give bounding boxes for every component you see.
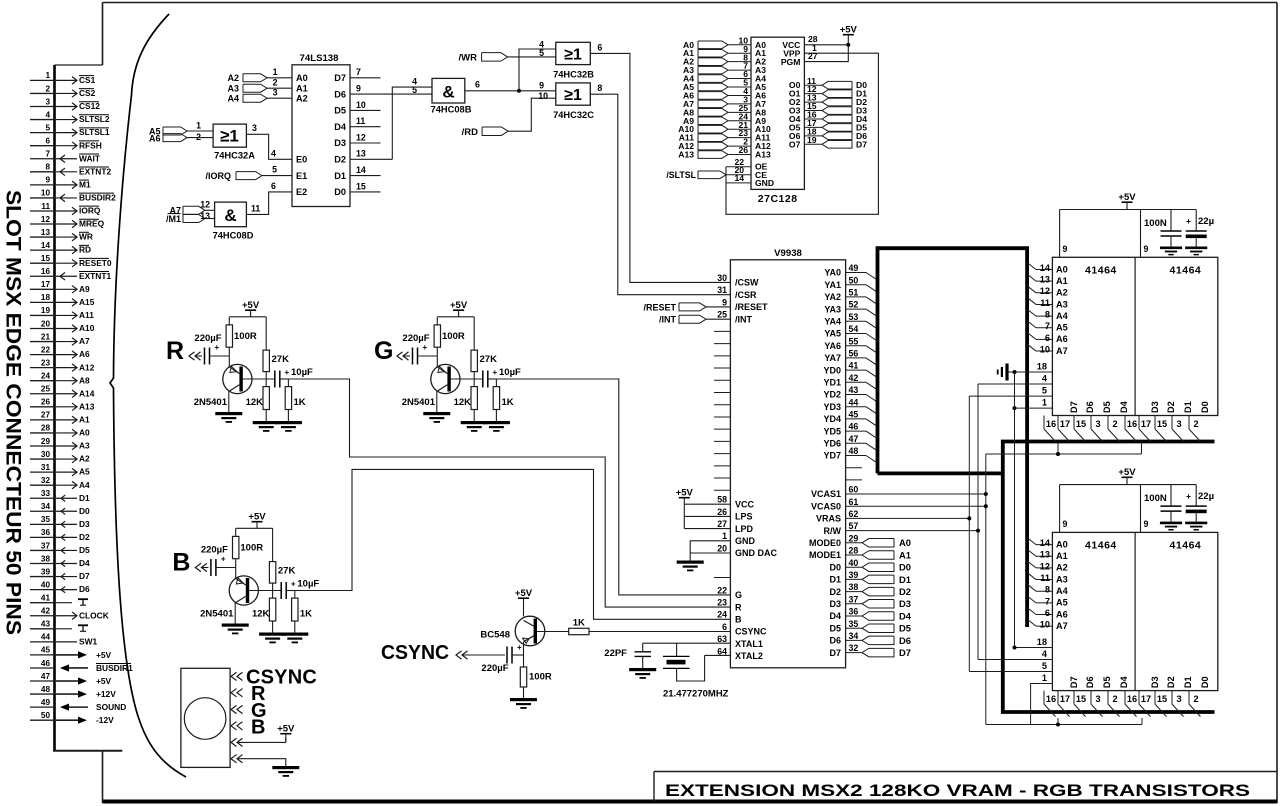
V9938 YD1 pin 42 to VRAM bus bbox=[823, 373, 877, 390]
svg-text:2: 2 bbox=[273, 77, 278, 87]
input A5 to 74HC32A bbox=[149, 121, 213, 137]
svg-text:YA1: YA1 bbox=[824, 280, 841, 290]
svg-text:16: 16 bbox=[1046, 694, 1056, 704]
svg-text:G: G bbox=[374, 337, 393, 365]
svg-text:+: + bbox=[517, 643, 522, 652]
svg-text:55: 55 bbox=[849, 336, 859, 346]
svg-text:B: B bbox=[172, 549, 190, 577]
svg-text:14: 14 bbox=[41, 241, 51, 250]
svg-text:D3: D3 bbox=[1150, 401, 1160, 413]
connector pin 11 IORQ bbox=[30, 202, 101, 216]
V9938 GND pins 1 and 20 to ground bbox=[690, 531, 777, 560]
svg-text:9: 9 bbox=[45, 176, 50, 185]
svg-text:+12V: +12V bbox=[96, 689, 116, 699]
input A4 to 74LS138 bbox=[227, 87, 292, 103]
connector pin 24 A8 bbox=[30, 372, 90, 386]
DRAM lower address pin 11 A3 bbox=[1027, 573, 1068, 585]
ground below 100N lower bbox=[1160, 522, 1182, 525]
svg-text:D2: D2 bbox=[829, 587, 841, 597]
svg-text:26: 26 bbox=[717, 507, 727, 517]
svg-text:+5V: +5V bbox=[1118, 192, 1136, 203]
input /SLTSL to EPROM CE pin 20 bbox=[666, 165, 767, 180]
svg-text:A1: A1 bbox=[296, 83, 308, 93]
V9938 D5 pin 35 from data bus bbox=[829, 619, 911, 634]
wire B signal to V9938 pin 24 bbox=[295, 469, 731, 619]
DRAM upper pin 1 wire bbox=[1013, 398, 1053, 411]
svg-text:CS1: CS1 bbox=[79, 75, 96, 85]
svg-text:+: + bbox=[221, 555, 226, 564]
V9938 MODE1 pin 28 from A1 bbox=[809, 546, 911, 561]
DRAM lower chip1 bottom pin 2 bbox=[1108, 691, 1120, 717]
svg-text:&: & bbox=[442, 83, 454, 102]
connector pin 13 WR bbox=[30, 228, 93, 242]
DIN pin CSYNC bbox=[231, 667, 317, 689]
and-gate U3B 74HC08B bbox=[412, 76, 465, 103]
svg-text:CLOCK: CLOCK bbox=[79, 610, 109, 620]
svg-text:D5: D5 bbox=[829, 623, 841, 633]
svg-text:D4: D4 bbox=[1119, 675, 1129, 688]
svg-text:A6: A6 bbox=[79, 349, 90, 359]
slot edge connector spine bbox=[53, 65, 122, 751]
DRAM lower address pin 14 A0 bbox=[1027, 538, 1068, 550]
svg-text:23: 23 bbox=[717, 598, 727, 608]
DRAM upper address pin 7 A5 bbox=[1027, 321, 1068, 333]
svg-text:42: 42 bbox=[41, 607, 51, 616]
svg-text:/RESET: /RESET bbox=[735, 302, 768, 312]
svg-text:D1: D1 bbox=[829, 575, 841, 585]
svg-text:A8: A8 bbox=[79, 375, 90, 385]
svg-text:D2: D2 bbox=[899, 586, 911, 597]
DRAM lower pin 18 wire bbox=[1013, 637, 1053, 650]
svg-text:2N5401: 2N5401 bbox=[194, 397, 228, 408]
svg-text:37: 37 bbox=[849, 594, 859, 604]
capacitor 22uF upper bbox=[1186, 210, 1214, 247]
B output arrow bbox=[195, 563, 201, 571]
resistor 100R CSYNC emitter bbox=[520, 667, 552, 698]
svg-text:+5V: +5V bbox=[840, 25, 858, 36]
ground below transistor R bbox=[215, 412, 242, 415]
svg-text:16: 16 bbox=[1127, 419, 1137, 429]
svg-text:A2: A2 bbox=[296, 93, 308, 103]
power +5V to V9938 VCC LPS LPD bbox=[676, 488, 755, 534]
svg-text:2: 2 bbox=[1193, 419, 1198, 429]
svg-text:3: 3 bbox=[1176, 694, 1181, 704]
svg-text:+: + bbox=[215, 343, 220, 352]
DRAM upper address pin 12 A2 bbox=[1027, 286, 1068, 298]
svg-text:A4: A4 bbox=[227, 94, 239, 104]
svg-text:D6: D6 bbox=[829, 636, 841, 646]
EPROM address input A12 pin 2 bbox=[678, 137, 771, 151]
svg-text:LPD: LPD bbox=[735, 524, 754, 534]
svg-text:A11: A11 bbox=[79, 310, 94, 320]
svg-text:+: + bbox=[1186, 491, 1191, 501]
svg-text:7: 7 bbox=[45, 150, 50, 159]
svg-text:YA3: YA3 bbox=[824, 304, 841, 314]
svg-text:100R: 100R bbox=[529, 672, 552, 683]
VRAM address bus thick rectangle bbox=[878, 248, 1028, 627]
svg-text:10: 10 bbox=[1040, 620, 1050, 630]
resistor 27K G bbox=[471, 317, 497, 379]
decoder U4 74LS138 bbox=[292, 65, 350, 207]
V9938 YA4 pin 53 to VRAM bus bbox=[824, 312, 877, 329]
V9938 YA1 pin 50 to VRAM bus bbox=[824, 275, 877, 292]
svg-text:R: R bbox=[735, 602, 742, 612]
svg-text:YD7: YD7 bbox=[823, 451, 841, 461]
svg-text:13: 13 bbox=[356, 149, 366, 159]
EPROM GND pin 14 bbox=[726, 173, 774, 188]
wire 74HC08B output 6 to 74HC32C pin 9 with junction bbox=[465, 80, 556, 93]
svg-text:B: B bbox=[251, 716, 265, 738]
resistor 100R R bbox=[226, 317, 257, 367]
connector pin 41 GND bbox=[30, 593, 88, 605]
svg-text:100R: 100R bbox=[442, 331, 465, 342]
DRAM lower address pin 7 A5 bbox=[1027, 596, 1068, 608]
DRAM upper address pin 6 A6 bbox=[1027, 332, 1068, 344]
DRAM lower chip1 bottom pin 15 bbox=[1074, 691, 1086, 717]
svg-text:A3: A3 bbox=[1056, 574, 1068, 584]
svg-text:YD4: YD4 bbox=[823, 414, 841, 424]
capacitor 100N lower bbox=[1144, 485, 1182, 522]
svg-text:XTAL1: XTAL1 bbox=[735, 639, 763, 649]
svg-text:EXTNT1: EXTNT1 bbox=[79, 271, 111, 281]
svg-text:PGM: PGM bbox=[781, 57, 801, 67]
svg-text:A1: A1 bbox=[79, 414, 90, 424]
svg-text:YA6: YA6 bbox=[824, 341, 841, 351]
svg-text:A7: A7 bbox=[79, 336, 90, 346]
resistor 27K B bbox=[269, 528, 295, 590]
V9938 YA2 pin 51 to VRAM bus bbox=[824, 288, 877, 305]
svg-text:D4: D4 bbox=[829, 611, 841, 621]
svg-text:43: 43 bbox=[41, 620, 51, 629]
svg-text:/IORQ: /IORQ bbox=[205, 171, 231, 181]
svg-text:A5: A5 bbox=[1056, 598, 1068, 608]
svg-text:24: 24 bbox=[717, 610, 727, 620]
input /INT to V9938 pin 25 bbox=[659, 310, 753, 325]
svg-text:1: 1 bbox=[1042, 398, 1047, 408]
svg-text:7: 7 bbox=[356, 67, 361, 77]
svg-text:+5V: +5V bbox=[676, 488, 694, 499]
svg-text:≥1: ≥1 bbox=[564, 47, 582, 64]
ground below 100R CSYNC bbox=[510, 698, 537, 701]
svg-text:VRAS: VRAS bbox=[816, 514, 841, 524]
svg-text:YD1: YD1 bbox=[823, 378, 841, 388]
capacitor 220uF CSYNC bbox=[481, 643, 523, 674]
svg-text:53: 53 bbox=[849, 312, 859, 322]
svg-text:14: 14 bbox=[734, 173, 744, 183]
connector pin 48 +12V bbox=[30, 685, 116, 699]
wire XTAL2 pin 64 bbox=[705, 654, 731, 656]
svg-text:16: 16 bbox=[1127, 694, 1137, 704]
svg-text:A0: A0 bbox=[296, 73, 308, 83]
EPROM data output O2 pin 13 to D2 bbox=[789, 93, 867, 107]
svg-text:10µF: 10µF bbox=[291, 367, 313, 378]
resistor 12K G bbox=[454, 379, 478, 421]
svg-text:74HC08D: 74HC08D bbox=[213, 231, 254, 241]
resistor 1K CSYNC base bbox=[537, 618, 730, 635]
svg-text:51: 51 bbox=[849, 288, 859, 298]
V9938 YD2 pin 43 to VRAM bus bbox=[823, 385, 877, 402]
R output arrow bbox=[189, 352, 195, 360]
EPROM address input A10 pin 21 bbox=[678, 120, 771, 134]
DRAM lower address pin 10 A7 bbox=[1027, 619, 1068, 631]
svg-text:14: 14 bbox=[356, 165, 366, 175]
svg-text:A3: A3 bbox=[227, 84, 239, 94]
DRAM upper chip2 bottom pin 17 bbox=[1139, 416, 1151, 442]
svg-text:+5V: +5V bbox=[450, 300, 468, 311]
svg-text:1: 1 bbox=[45, 71, 50, 80]
svg-text:MODE0: MODE0 bbox=[809, 538, 841, 548]
V9938 /CSW pin 30 bbox=[717, 273, 759, 288]
svg-text:57: 57 bbox=[849, 521, 859, 531]
svg-text:SLTSL2: SLTSL2 bbox=[79, 114, 110, 124]
V9938 D6 pin 34 from data bus bbox=[829, 631, 911, 646]
DRAM upper pin 18 to ground and GND net bbox=[1007, 362, 1052, 375]
svg-text:3: 3 bbox=[252, 123, 257, 133]
svg-text:A5: A5 bbox=[1056, 323, 1068, 333]
connector pin 25 A14 bbox=[30, 385, 95, 399]
V9938 D7 pin 32 from data bus bbox=[829, 643, 911, 658]
svg-text:15: 15 bbox=[1157, 694, 1167, 704]
EPROM data output O6 pin 18 to D6 bbox=[789, 126, 867, 140]
base wire G bbox=[451, 378, 483, 380]
connector pin 30 A2 bbox=[30, 450, 90, 464]
svg-text:22µ: 22µ bbox=[1198, 216, 1214, 227]
ground below 1K B bbox=[281, 633, 308, 636]
svg-text:A0: A0 bbox=[899, 537, 911, 548]
svg-text:BUSDIR1: BUSDIR1 bbox=[96, 663, 133, 673]
svg-text:+5V: +5V bbox=[277, 724, 295, 735]
svg-text:27K: 27K bbox=[278, 566, 296, 577]
svg-text:26: 26 bbox=[738, 145, 748, 155]
svg-text:60: 60 bbox=[849, 485, 859, 495]
ground below 1K R bbox=[275, 421, 302, 424]
svg-text:D0: D0 bbox=[1200, 401, 1210, 413]
svg-text:YD2: YD2 bbox=[823, 390, 841, 400]
svg-text:63: 63 bbox=[717, 634, 727, 644]
svg-text:8: 8 bbox=[45, 163, 50, 172]
svg-text:/M1: /M1 bbox=[166, 214, 181, 224]
svg-text:1: 1 bbox=[196, 121, 201, 131]
svg-text:29: 29 bbox=[41, 437, 51, 446]
DRAM upper chip1 bottom pin 2 bbox=[1108, 416, 1120, 442]
svg-text:13: 13 bbox=[1040, 275, 1050, 285]
V9938 YA3 pin 52 to VRAM bus bbox=[824, 300, 877, 317]
svg-text:CS2: CS2 bbox=[79, 88, 96, 98]
svg-text:≥1: ≥1 bbox=[564, 87, 582, 104]
DRAM lower chip2 bottom pin 17 bbox=[1139, 691, 1151, 717]
svg-text:7: 7 bbox=[1045, 596, 1050, 606]
EPROM address input A11 pin 23 bbox=[679, 128, 771, 142]
svg-text:19: 19 bbox=[41, 306, 51, 315]
net /CAS lower wire bbox=[846, 504, 1142, 726]
svg-text:EXTNT2: EXTNT2 bbox=[79, 166, 111, 176]
svg-text:10: 10 bbox=[538, 91, 548, 101]
svg-text:A6: A6 bbox=[149, 133, 161, 143]
svg-text:D4: D4 bbox=[1119, 400, 1129, 413]
base wire B bbox=[249, 590, 281, 592]
resistor 1K G bbox=[493, 379, 514, 421]
svg-text:R/W: R/W bbox=[824, 526, 842, 536]
connector pin 43 GND bbox=[30, 620, 88, 632]
connector pin 8 EXTNT2 bbox=[30, 163, 111, 177]
svg-text:M1: M1 bbox=[79, 179, 91, 189]
wire +5V rail B bbox=[236, 527, 273, 529]
DRAM upper pin 5 wire bbox=[969, 386, 1052, 397]
svg-text:29: 29 bbox=[849, 533, 859, 543]
V9938 right unconnected stubs bbox=[846, 468, 862, 480]
DRAM lower chip1 bottom pin 17 bbox=[1058, 691, 1070, 717]
wire junction up to 74HC32B pin 4 bbox=[519, 49, 556, 91]
svg-text:15: 15 bbox=[1076, 419, 1086, 429]
svg-text:5: 5 bbox=[412, 85, 417, 95]
DRAM upper chip2 bottom pin 3 bbox=[1172, 416, 1184, 442]
svg-text:41464: 41464 bbox=[1170, 265, 1202, 277]
svg-text:+: + bbox=[423, 343, 428, 352]
DRAM upper address pin 14 A0 bbox=[1027, 263, 1068, 275]
V9938 lower left stub bbox=[714, 577, 730, 579]
V9938 /CSR pin 31 bbox=[717, 285, 757, 300]
svg-text:34: 34 bbox=[849, 631, 859, 641]
and-gate U3D 74HC08D bbox=[215, 202, 247, 227]
svg-text:A2: A2 bbox=[227, 73, 239, 83]
svg-text:YA7: YA7 bbox=[824, 353, 841, 363]
svg-text:74HC32B: 74HC32B bbox=[553, 70, 594, 80]
svg-text:+5V: +5V bbox=[1118, 467, 1136, 478]
V9938 YD5 pin 46 to VRAM bus bbox=[823, 422, 877, 439]
svg-text:D0: D0 bbox=[79, 506, 90, 516]
svg-text:7: 7 bbox=[1045, 321, 1050, 331]
svg-text:EXTENSION MSX2 128KO VRAM - RG: EXTENSION MSX2 128KO VRAM - RGB TRANSIST… bbox=[665, 782, 1250, 800]
wire XTAL1 pin 63 bbox=[643, 642, 731, 644]
svg-text:56: 56 bbox=[849, 349, 859, 359]
capacitor 220uF B output bbox=[201, 545, 236, 577]
V9938 YD6 pin 47 to VRAM bus bbox=[823, 434, 877, 451]
svg-text:D5: D5 bbox=[1102, 401, 1112, 413]
svg-text:47: 47 bbox=[849, 434, 859, 444]
capacitor 10uF G bbox=[483, 367, 521, 388]
connector pin 49 SOUND bbox=[30, 698, 126, 712]
DRAM lower chip2 bottom pin 2 bbox=[1189, 691, 1201, 717]
svg-text:12K: 12K bbox=[454, 397, 472, 408]
connector pin 50 -12V bbox=[30, 711, 114, 725]
svg-text:18: 18 bbox=[1037, 362, 1047, 372]
svg-text:42: 42 bbox=[849, 373, 859, 383]
EPROM address input A0 pin 10 bbox=[683, 35, 766, 49]
svg-text:12K: 12K bbox=[252, 609, 270, 620]
svg-text:9: 9 bbox=[1144, 244, 1149, 254]
svg-text:GND DAC: GND DAC bbox=[735, 548, 777, 558]
svg-text:D5: D5 bbox=[79, 545, 90, 555]
wire 74LS138 D6 pin 9 to 74HC08B pin 5 bbox=[350, 84, 432, 95]
svg-text:BUSDIR2: BUSDIR2 bbox=[79, 193, 116, 203]
ground below transistor G bbox=[423, 412, 450, 415]
svg-text:4: 4 bbox=[1042, 649, 1048, 659]
DRAM lower address pin 12 A2 bbox=[1027, 561, 1068, 573]
connector pin 21 A7 bbox=[30, 332, 90, 346]
resistor 1K R bbox=[285, 379, 306, 421]
svg-text:A13: A13 bbox=[755, 150, 771, 160]
connector pin 34 D0 bbox=[30, 502, 90, 516]
svg-text:47: 47 bbox=[41, 672, 51, 681]
svg-text:9: 9 bbox=[1063, 244, 1068, 254]
ground below 22uF upper bbox=[1185, 247, 1207, 250]
svg-text:/INT: /INT bbox=[735, 314, 753, 324]
svg-text:23: 23 bbox=[41, 358, 51, 367]
svg-text:15: 15 bbox=[1157, 419, 1167, 429]
svg-text:24: 24 bbox=[41, 372, 51, 381]
DRAM lower chip2 bottom pin 15 bbox=[1155, 691, 1167, 717]
svg-text:6: 6 bbox=[1045, 333, 1050, 343]
V9938 YD0 pin 41 to VRAM bus bbox=[823, 361, 877, 378]
svg-text:SLOT MSX EDGE CONNECTEUR 50 PI: SLOT MSX EDGE CONNECTEUR 50 PINS bbox=[2, 190, 26, 635]
svg-text:44: 44 bbox=[849, 397, 859, 407]
svg-text:27: 27 bbox=[41, 411, 51, 420]
connector pin 18 A15 bbox=[30, 293, 95, 307]
svg-text:5: 5 bbox=[45, 123, 50, 132]
svg-text:3: 3 bbox=[1176, 419, 1181, 429]
svg-text:A2: A2 bbox=[1056, 563, 1068, 573]
svg-text:28: 28 bbox=[41, 424, 51, 433]
svg-text:XTAL2: XTAL2 bbox=[735, 651, 763, 661]
V9938 D3 pin 37 from data bus bbox=[829, 594, 911, 609]
connector pin 33 D1 bbox=[30, 489, 90, 503]
wire 74HC32A output 3 to 74LS138 E0 pin 4 bbox=[246, 123, 292, 159]
svg-text:A4: A4 bbox=[79, 480, 90, 490]
CSYNC output arrow bbox=[456, 651, 505, 659]
svg-text:30: 30 bbox=[41, 450, 51, 459]
net /RAS vertical connecting pin5 rows and VRAS bbox=[846, 396, 972, 671]
svg-text:R: R bbox=[166, 337, 184, 365]
svg-text:A10: A10 bbox=[79, 323, 95, 333]
svg-text:SOUND: SOUND bbox=[96, 702, 126, 712]
EPROM address input A13 pin 26 bbox=[678, 145, 771, 159]
DRAM upper pin 4 wire bbox=[978, 374, 1052, 385]
EPROM address input A7 pin 3 bbox=[683, 94, 766, 108]
connector pin 2 CS2 bbox=[30, 84, 96, 98]
svg-text:10: 10 bbox=[41, 189, 51, 198]
svg-text:33: 33 bbox=[41, 489, 51, 498]
svg-text:49: 49 bbox=[849, 263, 859, 273]
svg-text:50: 50 bbox=[41, 711, 51, 720]
svg-text:VCAS0: VCAS0 bbox=[811, 501, 841, 511]
svg-text:GND: GND bbox=[755, 178, 774, 188]
V9938 VCAS0 pin 61 label bbox=[811, 497, 858, 512]
wire G signal to V9938 pin 22 bbox=[496, 379, 730, 595]
svg-text:D1: D1 bbox=[79, 493, 90, 503]
svg-text:RD: RD bbox=[79, 245, 91, 255]
V9938 YD3 pin 44 to VRAM bus bbox=[823, 397, 877, 414]
svg-text:18: 18 bbox=[41, 293, 51, 302]
svg-text:220µF: 220µF bbox=[402, 333, 429, 344]
DRAM upper address pin 11 A3 bbox=[1027, 297, 1068, 309]
connector pin 39 D7 bbox=[30, 567, 90, 581]
power +5V rail DRAM upper bbox=[1060, 192, 1197, 257]
svg-text:YA5: YA5 bbox=[824, 329, 841, 339]
svg-text:12K: 12K bbox=[246, 397, 264, 408]
svg-text:D1: D1 bbox=[334, 171, 346, 181]
svg-text:A5: A5 bbox=[79, 467, 90, 477]
svg-text:41464: 41464 bbox=[1170, 540, 1202, 552]
svg-text:45: 45 bbox=[41, 646, 51, 655]
connector pin 29 A3 bbox=[30, 437, 90, 451]
connector pin 28 A0 bbox=[30, 424, 90, 438]
svg-text:11: 11 bbox=[251, 203, 260, 213]
connector pin 10 BUSDIR2 bbox=[30, 189, 116, 203]
svg-text:&: & bbox=[224, 206, 236, 225]
svg-text:3: 3 bbox=[1095, 694, 1100, 704]
svg-text:A14: A14 bbox=[79, 388, 95, 398]
svg-text:CSYNC: CSYNC bbox=[381, 642, 449, 664]
